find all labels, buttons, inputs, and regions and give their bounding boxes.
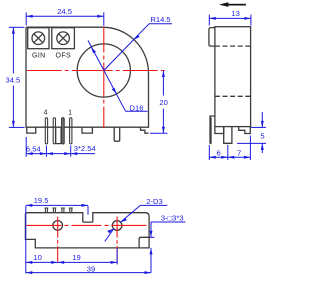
svg-text:4: 4 xyxy=(43,109,47,116)
svg-text:R14.5: R14.5 xyxy=(150,15,170,24)
svg-text:34.5: 34.5 xyxy=(6,75,21,84)
svg-text:3*2.54: 3*2.54 xyxy=(74,144,96,153)
svg-text:7: 7 xyxy=(237,148,241,157)
svg-text:19.5: 19.5 xyxy=(34,196,49,205)
svg-text:OFS: OFS xyxy=(56,53,72,60)
svg-text:39: 39 xyxy=(87,264,95,273)
svg-text:19: 19 xyxy=(72,253,80,262)
svg-text:GIN: GIN xyxy=(32,53,46,60)
svg-text:3-□3*3: 3-□3*3 xyxy=(161,214,184,223)
svg-text:1: 1 xyxy=(68,109,72,116)
svg-text:D16: D16 xyxy=(130,104,144,113)
svg-text:5: 5 xyxy=(260,132,264,141)
svg-text:6.54: 6.54 xyxy=(26,145,41,154)
svg-text:13: 13 xyxy=(231,9,239,18)
svg-text:2-D3: 2-D3 xyxy=(146,197,162,206)
svg-text:10: 10 xyxy=(33,253,41,262)
svg-text:6: 6 xyxy=(216,148,220,157)
svg-text:24.5: 24.5 xyxy=(57,7,72,16)
svg-text:20: 20 xyxy=(159,98,167,107)
